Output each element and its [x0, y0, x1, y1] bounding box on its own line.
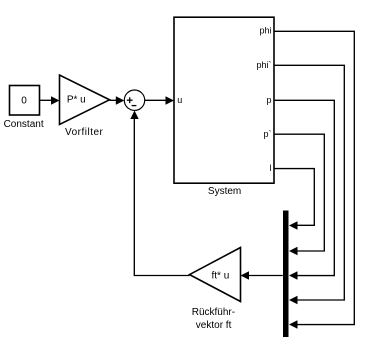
svg-text:Vorfilter: Vorfilter [65, 127, 104, 138]
svg-text:p`: p` [263, 129, 271, 139]
svg-text:System: System [208, 186, 241, 197]
svg-text:Rückführ-: Rückführ- [192, 307, 235, 318]
svg-text:p: p [266, 95, 271, 105]
svg-text:phi`: phi` [256, 60, 271, 70]
svg-text:P* u: P* u [67, 95, 86, 106]
svg-text:vektor ft: vektor ft [196, 320, 232, 331]
svg-text:l: l [270, 163, 272, 173]
svg-text:ft* u: ft* u [212, 270, 230, 281]
svg-text:u: u [177, 95, 182, 105]
svg-text:0: 0 [21, 96, 27, 107]
svg-text:phi: phi [259, 26, 271, 36]
svg-text:Constant: Constant [4, 119, 44, 130]
